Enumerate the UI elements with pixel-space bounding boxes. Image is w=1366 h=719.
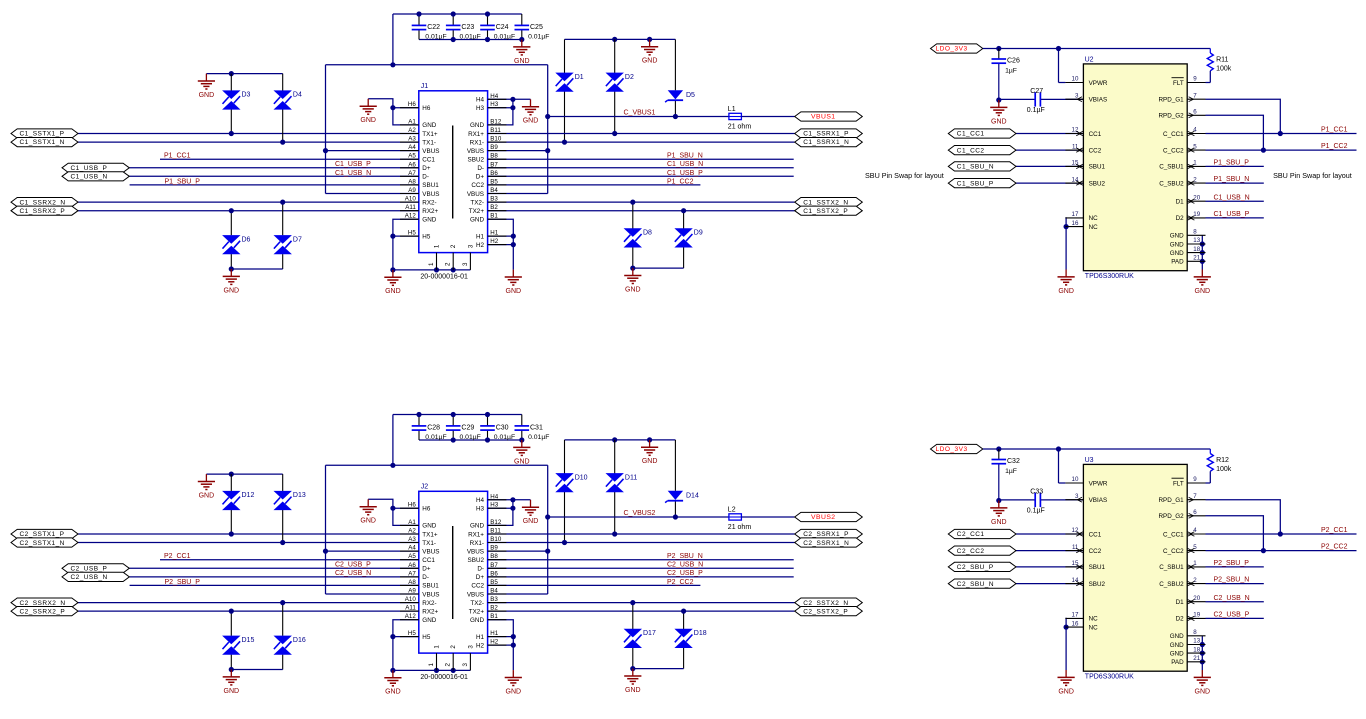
J1 pin B5 (CC2)	[471, 178, 506, 189]
wire C_CC2 row	[1206, 149, 1357, 151]
wire LDO_3V3 rail	[983, 48, 1211, 50]
wire H5 stub	[393, 235, 419, 237]
junction	[390, 463, 395, 468]
U2 pin 21 (PAD)	[1171, 255, 1205, 266]
junction	[485, 412, 490, 417]
J1 pin B7 (D-)	[477, 161, 506, 172]
svg-text:0.01µF: 0.01µF	[460, 34, 481, 41]
junction	[519, 437, 524, 442]
svg-text:GND: GND	[642, 58, 658, 65]
svg-text:H6: H6	[408, 502, 416, 509]
svg-text:10: 10	[1072, 76, 1079, 83]
svg-text:GND: GND	[523, 118, 539, 125]
capacitor C31 0.01uF	[515, 415, 550, 442]
net label C_VBUS1	[624, 109, 656, 116]
U3 pin 5 (C_CC2)	[1163, 544, 1205, 555]
svg-text:P1_CC2: P1_CC2	[1321, 143, 1348, 150]
svg-text:B4: B4	[490, 588, 498, 595]
svg-text:C_VBUS2: C_VBUS2	[624, 510, 656, 517]
wire SBU1 row	[130, 184, 419, 186]
svg-text:3: 3	[467, 244, 474, 248]
wire SSRX2_P row	[78, 210, 419, 212]
wire D6/D7 ground bus	[231, 268, 282, 270]
port C2_SSTX1_P	[11, 529, 78, 538]
svg-text:B1: B1	[490, 613, 498, 620]
wire SSRX1_N row	[488, 542, 795, 544]
svg-text:CC1: CC1	[422, 157, 435, 164]
U3 pin 8 (GND)	[1170, 629, 1206, 640]
port C2_SBU_P	[948, 562, 1016, 571]
ground at H6/A1	[360, 99, 377, 124]
net label P2_SBU_P	[165, 579, 201, 586]
svg-text:SBU1: SBU1	[422, 583, 439, 590]
U2 pin 3 (VBIAS)	[1065, 92, 1107, 103]
junction	[323, 549, 328, 554]
svg-text:C2_SSRX2_P: C2_SSRX2_P	[20, 608, 66, 615]
U2 pin 6 (RPD_G2)	[1158, 109, 1205, 120]
wire GND/PAD pins to ground	[1201, 235, 1203, 269]
svg-text:A12: A12	[405, 613, 417, 620]
wire H6 stub	[393, 507, 419, 509]
U2 pin 1 (C_SBU1)	[1159, 160, 1205, 171]
junction	[510, 97, 515, 102]
svg-text:A5: A5	[408, 553, 416, 560]
junction	[545, 514, 550, 519]
junction	[510, 506, 515, 511]
svg-text:CC1: CC1	[1089, 531, 1102, 538]
svg-text:TX2+: TX2+	[469, 208, 485, 215]
J2 pin A9 (VBUS)	[400, 588, 439, 599]
wire NC pins to ground	[1064, 218, 1067, 270]
junction	[390, 62, 395, 67]
junction	[280, 540, 285, 545]
wire D4 column	[282, 474, 284, 542]
U3 pin 18 (GND)	[1170, 646, 1206, 657]
U3 pin 10 (VPWR)	[1065, 476, 1108, 487]
svg-text:0.01µF: 0.01µF	[460, 434, 481, 441]
wire D8 column	[632, 603, 634, 669]
junction	[681, 208, 686, 213]
junction	[390, 267, 395, 272]
junction	[451, 412, 456, 417]
wire D8/D9 ground bus	[633, 267, 684, 269]
svg-text:R12: R12	[1216, 457, 1229, 464]
U3 pin 4 (C_CC1)	[1163, 527, 1205, 538]
junction	[1261, 548, 1266, 553]
J1 pin A8 (SBU1)	[400, 178, 439, 189]
svg-text:RX1+: RX1+	[468, 531, 484, 538]
svg-text:GND: GND	[1170, 250, 1184, 257]
svg-text:GND: GND	[385, 689, 401, 696]
wire C_CC1 row	[1206, 533, 1357, 535]
U2 pin 11 (CC2)	[1065, 143, 1101, 154]
J2 pin H1 (H1)	[476, 630, 506, 641]
U3 pin 3 (VBIAS)	[1065, 493, 1107, 504]
wire bottom pins bus	[393, 269, 471, 271]
wire SSRX1_P row	[488, 533, 795, 535]
ground at C32	[990, 501, 1007, 526]
svg-text:H1: H1	[490, 630, 498, 637]
svg-text:H6: H6	[408, 101, 416, 108]
wire RPD_G2 to C_CC2	[1206, 516, 1264, 551]
svg-text:VPWR: VPWR	[1089, 80, 1108, 87]
svg-text:D-: D-	[477, 165, 484, 172]
junction	[511, 634, 516, 639]
U3 pin 20 (D1)	[1176, 595, 1206, 606]
wire H2 stub	[488, 244, 514, 246]
svg-text:15: 15	[1072, 160, 1079, 167]
wire USB_P row	[129, 567, 419, 569]
J2 pin B6 (D+)	[476, 570, 507, 581]
power port VBUS2	[795, 512, 863, 521]
svg-text:100k: 100k	[1216, 466, 1232, 473]
diode D15	[222, 636, 254, 655]
svg-text:H1: H1	[490, 230, 498, 237]
wire P2_SBU_N row	[1206, 583, 1264, 585]
svg-text:D+: D+	[476, 174, 485, 181]
diode D5	[665, 90, 695, 102]
svg-text:H4: H4	[490, 93, 498, 100]
J2 part number	[420, 674, 468, 681]
svg-text:H4: H4	[476, 97, 485, 104]
diode D6	[222, 235, 250, 254]
J2 pin B9 (VBUS)	[467, 545, 507, 556]
junction	[562, 540, 567, 545]
wire H5 stub	[393, 636, 419, 638]
wire VBUS cap bank top bus	[393, 414, 522, 416]
wire A1-H6 ground link	[368, 99, 419, 125]
wire cap bank to VBUS rail	[392, 14, 394, 65]
svg-text:SBU2: SBU2	[1089, 180, 1106, 187]
ground cap bank	[513, 440, 530, 465]
svg-text:P2_SBU_P: P2_SBU_P	[1214, 560, 1250, 567]
J1 pin 2	[445, 244, 458, 270]
svg-text:B7: B7	[490, 562, 498, 569]
svg-text:SBU2: SBU2	[1089, 581, 1106, 588]
svg-text:H6: H6	[422, 105, 431, 112]
capacitor C32 1uF	[992, 449, 1020, 501]
wire A1-H6 ground link	[368, 499, 419, 525]
J1 pin B10 (RX1-)	[470, 136, 507, 147]
svg-text:C1_SBU_N: C1_SBU_N	[957, 164, 994, 171]
svg-text:H6: H6	[422, 506, 431, 513]
J2 pin A3 (TX1-)	[400, 536, 436, 547]
net label P1_SBU_P	[165, 178, 201, 185]
svg-text:H5: H5	[422, 233, 431, 240]
svg-text:H1: H1	[476, 233, 485, 240]
svg-text:A10: A10	[405, 596, 417, 603]
wire CC2 row	[488, 184, 701, 186]
svg-text:CC2: CC2	[471, 182, 484, 189]
junction	[390, 105, 395, 110]
diode D2	[606, 73, 634, 92]
capacitor C26 1uF	[992, 49, 1020, 101]
svg-text:11: 11	[1072, 544, 1079, 551]
wire A12-H5 ground link	[393, 620, 419, 671]
svg-text:D5: D5	[686, 92, 695, 99]
wire D6 column	[230, 211, 232, 269]
junction	[416, 11, 421, 16]
wire R to FLT	[1206, 471, 1211, 483]
svg-text:TX1-: TX1-	[422, 540, 436, 547]
wire H3 stub	[488, 107, 513, 109]
svg-text:VBUS1: VBUS1	[811, 114, 836, 121]
ground at D1/D2	[641, 39, 658, 64]
wire C_CC1 row	[1206, 133, 1357, 135]
svg-text:C_VBUS1: C_VBUS1	[624, 109, 656, 116]
svg-text:C1_CC2: C1_CC2	[957, 147, 985, 154]
port C1_SSRX2_P	[11, 206, 78, 215]
svg-text:RX2-: RX2-	[422, 600, 436, 607]
junction	[996, 498, 1001, 503]
U2 pin 15 (SBU1)	[1065, 160, 1105, 171]
U2 pin 8 (GND)	[1170, 229, 1206, 240]
svg-text:GND: GND	[514, 58, 530, 65]
junction	[390, 668, 395, 673]
wire P1_SBU_P row	[1206, 165, 1264, 167]
svg-text:C33: C33	[1030, 488, 1043, 495]
svg-text:1: 1	[1193, 160, 1197, 167]
svg-text:H3: H3	[476, 506, 485, 513]
svg-text:17: 17	[1072, 211, 1079, 218]
net label P2_CC1 right	[1321, 527, 1348, 534]
J1 pin B1 (GND)	[470, 213, 506, 224]
wire R to FLT	[1206, 71, 1211, 83]
svg-text:21 ohm: 21 ohm	[728, 524, 752, 531]
svg-text:13: 13	[1193, 237, 1200, 244]
J2 pin H2 (H2)	[476, 639, 506, 650]
U2 pin 17 (NC)	[1065, 211, 1098, 222]
port C2_SBU_N	[948, 579, 1016, 588]
svg-text:VBUS: VBUS	[467, 591, 484, 598]
wire VPWR drop	[1059, 49, 1066, 83]
diode D7	[274, 235, 302, 254]
svg-text:19: 19	[1193, 612, 1200, 619]
svg-text:D-: D-	[422, 174, 429, 181]
junction	[451, 37, 456, 42]
junction	[647, 437, 652, 442]
port C1_SSRX1_N	[795, 138, 863, 147]
wire GND/PAD pins to ground	[1201, 636, 1203, 670]
wire D1/D2/D5 ground bus	[565, 38, 676, 40]
J1 pin A6 (D+)	[400, 161, 431, 172]
net label C2_USB_P	[1214, 612, 1250, 619]
port C1_CC2	[948, 146, 1016, 155]
svg-text:C2_SSRX1_P: C2_SSRX1_P	[803, 531, 849, 538]
junction	[1200, 250, 1205, 255]
svg-text:3: 3	[462, 262, 469, 266]
svg-text:C30: C30	[496, 424, 509, 431]
junction	[1278, 531, 1283, 536]
wire P2_SBU_P row	[1206, 566, 1264, 568]
J1 pin A10 (RX2-)	[400, 196, 437, 207]
wire NC pins to ground	[1064, 618, 1067, 670]
IC U3 body (TPD6S300RUK)	[1083, 457, 1187, 671]
svg-text:P1_SBU_P: P1_SBU_P	[165, 178, 201, 185]
wire H6 stub	[393, 107, 419, 109]
port C2_SSTX2_N	[795, 598, 863, 607]
wire A9 VBUS stub	[326, 593, 419, 595]
diode D18	[674, 629, 706, 648]
J1 pin B12 (GND)	[470, 118, 506, 129]
J1 pin A3 (TX1-)	[400, 136, 436, 147]
note SBU pin swap left	[865, 171, 944, 180]
capacitor C25 0.01uF	[515, 14, 550, 41]
svg-text:GND: GND	[625, 687, 641, 694]
wire SSRX2_N row	[78, 201, 419, 203]
svg-text:TX2+: TX2+	[469, 608, 485, 615]
J2 pin B5 (CC2)	[471, 579, 506, 590]
svg-text:P2_SBU_N: P2_SBU_N	[667, 553, 703, 560]
J2 pin A5 (CC1)	[400, 553, 435, 564]
port C2_SSTX1_N	[11, 538, 78, 547]
junction	[630, 600, 635, 605]
U2 pin 14 (SBU2)	[1065, 176, 1105, 187]
svg-text:U3: U3	[1085, 457, 1094, 464]
svg-text:TX2-: TX2-	[470, 199, 484, 206]
svg-text:C31: C31	[530, 424, 543, 431]
svg-text:B11: B11	[490, 528, 501, 535]
svg-text:21: 21	[1193, 255, 1200, 262]
net label P1_CC2	[667, 178, 694, 185]
wire VBUS horizontal rail	[326, 64, 548, 66]
U2 pin 7 (RPD_G1)	[1158, 92, 1205, 103]
svg-text:GND: GND	[422, 523, 436, 530]
svg-text:A1: A1	[408, 118, 416, 125]
svg-text:13: 13	[1193, 638, 1200, 645]
J1 pin A12 (GND)	[400, 213, 437, 224]
U3 pin 9 (FLT)	[1172, 476, 1206, 487]
J1 pin H2 (H2)	[476, 238, 506, 249]
U3 pin 12 (CC1)	[1065, 527, 1101, 538]
U2 pin 20 (D1)	[1176, 194, 1206, 205]
junction	[280, 140, 285, 145]
wire D3/D4 ground bus	[206, 73, 282, 75]
J1 pin A1 (GND)	[400, 118, 437, 129]
svg-text:B4: B4	[490, 187, 498, 194]
J1 pin 3	[462, 244, 475, 270]
svg-text:RX1+: RX1+	[468, 131, 484, 138]
svg-text:SBU2: SBU2	[468, 557, 485, 564]
svg-text:RX2-: RX2-	[422, 199, 436, 206]
wire B12-H3-H4 ground link	[488, 500, 513, 526]
J1 pin A5 (CC1)	[400, 153, 435, 164]
wire L to VBUS port	[741, 116, 794, 118]
capacitor C27 0.1uF	[999, 88, 1084, 114]
svg-text:2: 2	[1193, 176, 1197, 183]
junction	[390, 506, 395, 511]
wire SSRX1_P row	[488, 133, 795, 135]
net label P1_CC2 right	[1321, 143, 1348, 150]
U3 pin 14 (SBU2)	[1065, 577, 1105, 588]
wire VBUS right drop to B9/B4	[547, 465, 549, 594]
svg-text:0.01µF: 0.01µF	[494, 434, 515, 441]
svg-text:A12: A12	[405, 213, 417, 220]
port C2_USB_N	[62, 572, 129, 581]
svg-text:C_CC2: C_CC2	[1163, 548, 1184, 555]
svg-text:2: 2	[445, 262, 452, 266]
svg-text:18: 18	[1193, 646, 1200, 653]
svg-text:RPD_G1: RPD_G1	[1158, 497, 1184, 504]
svg-text:D-: D-	[422, 574, 429, 581]
svg-text:C27: C27	[1030, 88, 1043, 95]
junction	[434, 668, 439, 673]
J1 pin A7 (D-)	[400, 170, 429, 181]
wire D- row	[488, 167, 794, 169]
svg-text:P2_CC1: P2_CC1	[164, 553, 191, 560]
svg-text:CC2: CC2	[1089, 147, 1102, 154]
power port VBUS1	[795, 112, 863, 121]
port C1_SBU_P	[948, 179, 1016, 188]
svg-text:20-0000016-01: 20-0000016-01	[420, 273, 468, 280]
junction	[229, 131, 234, 136]
svg-text:C2_USB_N: C2_USB_N	[1214, 595, 1250, 602]
diode D13	[274, 491, 306, 510]
svg-text:TX1+: TX1+	[422, 531, 438, 538]
wire LDO_3V3 rail	[983, 448, 1211, 450]
wire D3/D4 ground bus	[206, 473, 282, 475]
svg-text:C23: C23	[461, 24, 474, 31]
ground bottom-left	[384, 670, 401, 695]
svg-text:C1_SSRX2_P: C1_SSRX2_P	[20, 208, 66, 215]
svg-text:H3: H3	[490, 101, 498, 108]
U3 pin 16 (NC)	[1065, 620, 1098, 631]
svg-text:RPD_G2: RPD_G2	[1158, 513, 1184, 520]
svg-text:C1_USB_P: C1_USB_P	[71, 165, 108, 172]
svg-text:C2_USB_P: C2_USB_P	[667, 570, 703, 577]
svg-text:NC: NC	[1089, 624, 1099, 631]
svg-text:NC: NC	[1089, 215, 1099, 222]
wire SSRX2_P row	[78, 610, 419, 612]
svg-text:0.1µF: 0.1µF	[1027, 107, 1045, 114]
svg-text:16: 16	[1072, 620, 1079, 627]
junction	[451, 267, 456, 272]
svg-text:0.01µF: 0.01µF	[494, 34, 515, 41]
diode D9	[674, 228, 702, 247]
capacitor C28 0.01uF	[412, 415, 447, 442]
svg-text:C1_USB_P: C1_USB_P	[667, 170, 703, 177]
J2 pin H4 (H4)	[476, 493, 506, 504]
svg-text:D1: D1	[1176, 199, 1185, 206]
svg-text:P2_CC2: P2_CC2	[667, 579, 694, 586]
port C1_SSTX2_N	[795, 198, 863, 207]
ground cap bank	[513, 40, 530, 65]
svg-text:VBUS: VBUS	[422, 548, 439, 555]
svg-text:GND: GND	[514, 458, 530, 465]
svg-text:VBUS: VBUS	[467, 191, 484, 198]
junction	[612, 37, 617, 42]
svg-text:P1_SBU_N: P1_SBU_N	[1214, 176, 1250, 183]
port C2_SSRX2_P	[11, 607, 78, 616]
svg-text:14: 14	[1072, 176, 1079, 183]
svg-text:A8: A8	[408, 579, 416, 586]
svg-text:H5: H5	[408, 230, 416, 237]
J2 pin B12 (GND)	[470, 519, 506, 530]
net label P1_CC1	[164, 153, 191, 160]
junction	[485, 11, 490, 16]
wire to top-right ground	[513, 499, 531, 501]
svg-text:2: 2	[1193, 577, 1197, 584]
svg-text:C_SBU2: C_SBU2	[1159, 581, 1184, 588]
U3 pin 13 (GND)	[1170, 638, 1206, 649]
wire C2_USB_N row	[1206, 601, 1264, 603]
svg-text:GND: GND	[1170, 650, 1184, 657]
svg-text:H1: H1	[476, 634, 485, 641]
svg-text:10: 10	[1072, 476, 1079, 483]
wire B9 VBUS stub	[488, 150, 548, 152]
svg-text:RX1-: RX1-	[470, 139, 484, 146]
junction	[612, 437, 617, 442]
